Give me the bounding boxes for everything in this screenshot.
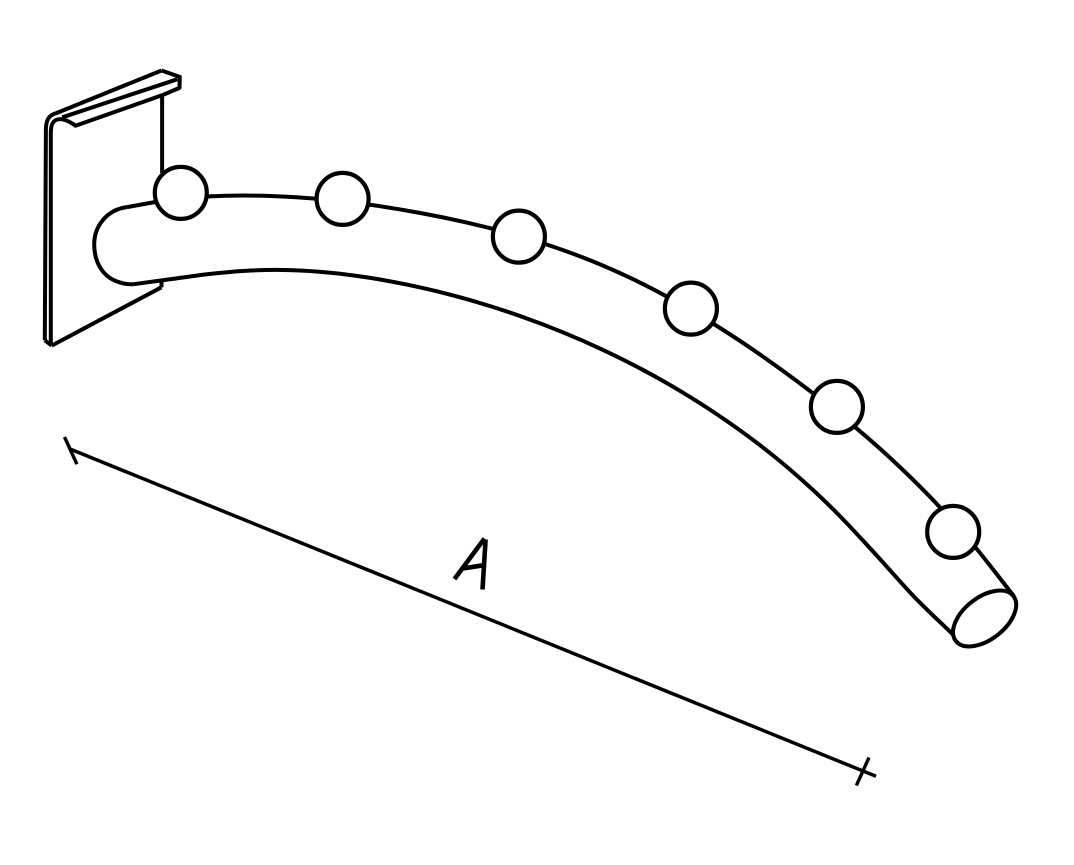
dimension line A [70, 449, 876, 776]
plate bottom corner [45, 340, 52, 345]
dimension tick right [856, 758, 869, 786]
tube top edge [128, 196, 1015, 597]
tube left cap arc [94, 207, 134, 284]
label A letter strokes [455, 539, 487, 590]
wall plate left inner edge with inner fold curve [51, 95, 163, 343]
lip bar end cap [162, 71, 180, 95]
wall plate left outer edge with top fold [45, 71, 162, 341]
ball 2 [317, 173, 369, 225]
lip bar front-top edge [62, 79, 177, 117]
tube bottom edge [134, 270, 953, 635]
ball 1 [155, 167, 207, 219]
plate right edge upper segment [160, 95, 164, 173]
tube end cap ellipse [943, 579, 1026, 657]
ball 3 [493, 211, 545, 263]
ball 6 [927, 506, 979, 558]
ball 4 [665, 283, 717, 335]
plate bottom edge [52, 287, 162, 345]
dimension tick left [65, 437, 77, 464]
ball 5 [811, 381, 863, 433]
plate right edge lower stub [159, 282, 163, 288]
tube body white fill [128, 196, 1015, 635]
